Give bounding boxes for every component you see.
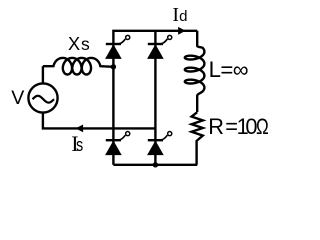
inductor Xs (horizontal coil with leads) (43, 58, 114, 75)
label Id (172, 5, 187, 25)
label Is (71, 133, 85, 155)
wire: bottom rail (113, 164, 197, 166)
arrow Id (right) on top rail (178, 27, 186, 35)
arrow Is (left) on bottom wire (76, 125, 84, 133)
thyristor T3 (top-right) (147, 35, 172, 59)
wire: source bottom lead + Is wire (43, 112, 155, 128)
thyristor T1 (top-left) (105, 35, 130, 59)
wire: top rail with bridge top (113, 31, 197, 165)
junction dot: right leg to bottom rail (153, 162, 158, 167)
wire: bridge right leg (154, 31, 156, 165)
thyristor T4 (bottom-left) (105, 132, 130, 156)
thyristor T2 (bottom-right) (147, 132, 172, 156)
label Xs (68, 35, 90, 54)
label V (11, 89, 24, 109)
wire: source top lead (42, 66, 44, 83)
source V circle (28, 83, 57, 112)
sine symbol inside source (33, 96, 55, 103)
resistor R (zigzag) (192, 112, 203, 165)
inductor L (vertical coil with leads) (185, 31, 205, 112)
label R=10ohm (208, 116, 272, 138)
label L=inf (209, 59, 248, 81)
junction dot: Xs to left leg (111, 64, 116, 69)
